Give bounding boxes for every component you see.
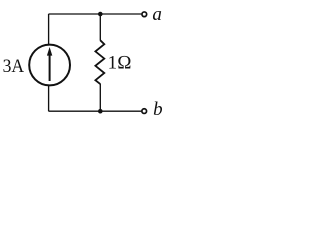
svg-text:3A: 3A bbox=[3, 56, 25, 77]
wire bottom horizontal bbox=[49, 110, 142, 112]
svg-text:1Ω: 1Ω bbox=[108, 53, 132, 74]
svg-text:a: a bbox=[152, 4, 162, 25]
wire top horizontal bbox=[49, 13, 142, 15]
wire resistor top lead bbox=[99, 14, 101, 41]
wire resistor bottom lead bbox=[99, 84, 101, 111]
node junction bottom bbox=[98, 109, 103, 114]
wire left vertical bbox=[48, 14, 50, 45]
terminal b bbox=[142, 109, 147, 114]
terminal a bbox=[142, 12, 147, 17]
current source I1 circle bbox=[29, 45, 70, 86]
resistor R 1ohm zigzag bbox=[95, 40, 104, 84]
current source arrow bbox=[47, 47, 52, 81]
svg-text:b: b bbox=[153, 99, 163, 120]
wire left vertical lower bbox=[48, 85, 50, 111]
node junction top bbox=[98, 12, 103, 17]
